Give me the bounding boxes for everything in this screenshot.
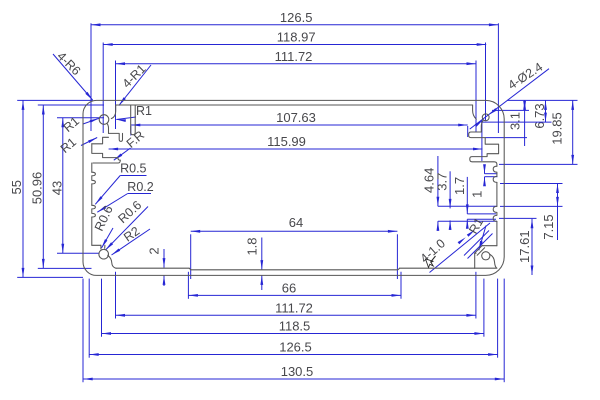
svg-text:7.15: 7.15 xyxy=(541,214,556,239)
svg-text:2: 2 xyxy=(147,247,162,254)
svg-text:64: 64 xyxy=(289,215,303,230)
svg-text:111.72: 111.72 xyxy=(275,300,313,315)
svg-text:66: 66 xyxy=(282,281,296,296)
svg-text:130.5: 130.5 xyxy=(281,364,314,379)
svg-text:3.1: 3.1 xyxy=(507,112,522,130)
svg-text:115.99: 115.99 xyxy=(267,134,306,149)
svg-text:19.85: 19.85 xyxy=(550,112,565,145)
svg-text:3.7: 3.7 xyxy=(435,173,450,191)
svg-text:111.72: 111.72 xyxy=(275,49,313,64)
svg-text:6.73: 6.73 xyxy=(532,103,547,128)
svg-text:1.7: 1.7 xyxy=(452,177,467,195)
svg-text:118.97: 118.97 xyxy=(277,30,316,45)
svg-text:126.5: 126.5 xyxy=(279,340,312,355)
svg-text:R0.2: R0.2 xyxy=(127,180,153,194)
svg-text:1.8: 1.8 xyxy=(244,237,259,255)
svg-text:126.5: 126.5 xyxy=(280,10,313,25)
svg-text:118.5: 118.5 xyxy=(279,319,311,334)
svg-text:43: 43 xyxy=(50,181,65,195)
svg-text:50.96: 50.96 xyxy=(29,172,44,205)
svg-text:17.61: 17.61 xyxy=(517,230,532,263)
svg-text:1: 1 xyxy=(469,191,484,198)
svg-text:R1: R1 xyxy=(136,104,152,118)
svg-text:107.63: 107.63 xyxy=(276,110,316,125)
svg-text:55: 55 xyxy=(9,180,24,194)
svg-text:R0.5: R0.5 xyxy=(120,161,146,175)
